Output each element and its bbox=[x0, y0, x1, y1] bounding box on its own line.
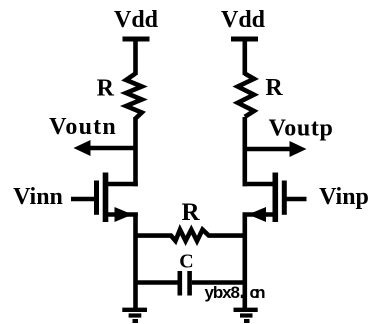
transistor M1 channel bar bbox=[103, 173, 109, 223]
svg-text:C: C bbox=[179, 251, 193, 273]
Vdd supply bar (left) bbox=[123, 37, 150, 42]
wire source lead M2 bbox=[243, 212, 277, 217]
wire capacitor left lead bbox=[136, 280, 178, 285]
svg-text:Voutp: Voutp bbox=[269, 116, 334, 142]
resistor R3 (right load) bbox=[238, 74, 254, 117]
wire source M1 down to ground (left column) bbox=[133, 213, 138, 311]
arrowhead source M1 (points right) bbox=[115, 207, 133, 222]
ground (left) bar 2 bbox=[129, 313, 142, 317]
svg-text:Vdd: Vdd bbox=[114, 7, 159, 33]
wire resistor R1 to drain of M1 / node Voutn bbox=[133, 117, 138, 186]
svg-text:ybx8: ybx8 bbox=[205, 283, 241, 302]
svg-text:R: R bbox=[265, 75, 283, 101]
wire capacitor right lead bbox=[192, 280, 245, 285]
ground (left) bar 1 bbox=[122, 308, 147, 312]
wire Vdd bar to resistor R1 bbox=[133, 39, 138, 75]
wire drain lead M1 bbox=[104, 182, 138, 187]
watermark ybx8.cn bbox=[202, 283, 267, 302]
arrowhead source M2 (points left) bbox=[248, 207, 266, 222]
wire source lead M1 bbox=[104, 212, 138, 217]
svg-text:R: R bbox=[97, 76, 115, 102]
transistor M2 gate bar bbox=[282, 181, 287, 215]
transistor M1 gate bar bbox=[94, 181, 99, 215]
capacitor C right plate bbox=[187, 271, 192, 296]
wire Vdd bar to resistor R3 bbox=[243, 39, 248, 75]
ground (right) bar 2 bbox=[240, 313, 253, 317]
ground (right) bar 3 bbox=[244, 319, 250, 323]
wire drain lead M2 bbox=[243, 182, 277, 187]
wire source M2 down to ground (right column) bbox=[243, 213, 248, 311]
svg-text:Voutn: Voutn bbox=[49, 114, 117, 140]
ground (left) bar 3 bbox=[133, 319, 139, 323]
resistor R1 (left load) bbox=[126, 74, 142, 119]
svg-text:Vinp: Vinp bbox=[319, 184, 369, 210]
wire resistor R3 to drain of M2 / node Voutp bbox=[243, 117, 248, 186]
capacitor C left plate bbox=[178, 271, 183, 296]
transistor M2 channel bar bbox=[272, 173, 278, 223]
wire gate lead M2 bbox=[287, 197, 307, 202]
svg-text:R: R bbox=[181, 199, 200, 226]
arrowhead Voutn bbox=[74, 140, 91, 156]
svg-text:Vinn: Vinn bbox=[13, 184, 63, 210]
Vdd supply bar (right) bbox=[231, 37, 258, 42]
ground (right) bar 1 bbox=[234, 308, 258, 312]
arrowhead Voutp bbox=[290, 141, 307, 157]
wire Voutp arrow shaft bbox=[245, 147, 292, 152]
svg-text:cn: cn bbox=[250, 283, 266, 302]
resistor R2 (source degeneration) with wires bbox=[136, 230, 246, 241]
wire gate lead M1 bbox=[71, 197, 95, 202]
wire Voutn arrow shaft bbox=[88, 146, 136, 151]
svg-text:Vdd: Vdd bbox=[221, 7, 266, 33]
